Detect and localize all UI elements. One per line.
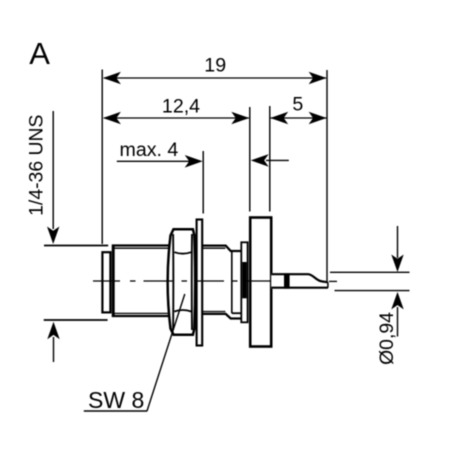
thread dim down arrowhead bbox=[47, 227, 59, 245]
hex nut right face line bbox=[191, 234, 193, 330]
counter arrow tail bbox=[266, 159, 289, 161]
svg-text:5: 5 bbox=[292, 93, 303, 115]
dimension 5 left arrow bbox=[270, 112, 288, 125]
svg-text:12,4: 12,4 bbox=[162, 96, 200, 118]
back body neck bottom line bbox=[232, 312, 242, 314]
centerline dash 4 bbox=[246, 280, 271, 282]
back body bottom edge with chamfer bbox=[202, 314, 241, 319]
back body top edge with chamfer bbox=[202, 246, 241, 251]
pin dim down arrow tail bbox=[397, 226, 399, 258]
svg-text:A: A bbox=[29, 36, 50, 71]
hex nut SW8 silhouette bbox=[168, 229, 196, 335]
svg-text:max. 4: max. 4 bbox=[120, 139, 179, 161]
threaded barrel body bbox=[113, 246, 197, 317]
solder tab black band bbox=[284, 273, 290, 288]
dimension max. 4 leader line bbox=[117, 160, 200, 162]
solder tab top edge bbox=[271, 274, 328, 282]
extension line max4 (washer face) bbox=[202, 151, 204, 214]
extension line A (left, front face) bbox=[101, 70, 103, 245]
solder tab bottom edge bbox=[271, 287, 328, 289]
insulator black core bbox=[242, 262, 247, 298]
dimension 5 right arrow bbox=[309, 112, 327, 125]
back body thread line bottom bbox=[202, 311, 225, 313]
front lip bbox=[102, 252, 110, 312]
insulator bushing bbox=[241, 242, 247, 322]
SW 8 leader line bbox=[147, 294, 185, 411]
thread crest line top bbox=[114, 247, 197, 249]
dimension max. 4 arrow bbox=[185, 155, 203, 168]
thread reference line top bbox=[44, 245, 108, 247]
pin diameter extension line top bbox=[330, 271, 410, 273]
barrel front face line bbox=[113, 246, 115, 316]
pin diameter extension line bottom bbox=[335, 290, 410, 292]
counter arrow at flange-left extension bbox=[251, 154, 269, 167]
centerline dash 2 bbox=[144, 280, 174, 282]
solder tab tip edge bbox=[327, 282, 329, 287]
extension line flange-left bbox=[249, 107, 251, 212]
dimension 12,4 line bbox=[104, 117, 249, 119]
SW 8 underline bbox=[84, 410, 147, 412]
washer bbox=[197, 220, 203, 346]
centerline dot 3 bbox=[232, 280, 238, 282]
centerline dot 1 bbox=[130, 280, 136, 282]
pin dim up arrow tail bbox=[397, 307, 399, 337]
centerline dot 2 bbox=[182, 280, 188, 282]
dimension 12,4 right arrow bbox=[231, 112, 249, 125]
back body thread line top bbox=[202, 247, 225, 249]
thread dim down arrow tail bbox=[52, 111, 54, 229]
centerline dash 3 bbox=[195, 280, 224, 282]
hex nut left face line bbox=[172, 234, 174, 330]
svg-text:1/4-36 UNS: 1/4-36 UNS bbox=[26, 114, 48, 215]
dimension 5 line bbox=[271, 117, 327, 119]
dimension 19 line bbox=[104, 77, 326, 79]
svg-text:19: 19 bbox=[204, 55, 226, 77]
svg-text:Ø0,94: Ø0,94 bbox=[376, 312, 398, 365]
centerline stub right of tip bbox=[329, 280, 337, 282]
extension line flange-right bbox=[269, 106, 271, 212]
thread reference line bottom bbox=[44, 319, 108, 321]
pin dim down arrowhead bbox=[391, 255, 403, 273]
thread crest line bottom bbox=[114, 312, 197, 314]
pin dim up arrowhead bbox=[391, 292, 403, 310]
centerline dash 1 bbox=[93, 280, 120, 282]
solder tab fill bbox=[271, 273, 328, 289]
dimension 12,4 left arrow bbox=[103, 112, 121, 125]
svg-text:SW 8: SW 8 bbox=[88, 387, 144, 413]
dimension 19 right arrow bbox=[309, 72, 327, 85]
hex nut bottom chamfer arc bbox=[174, 310, 191, 312]
thread dim up arrow tail bbox=[53, 337, 55, 362]
hex nut top chamfer arc bbox=[174, 252, 191, 254]
thread dim up arrowhead bbox=[47, 322, 59, 340]
back body neck vertical edge bbox=[231, 251, 233, 313]
dimension 19 left arrow bbox=[103, 72, 121, 85]
extension line B (right, pin tip) bbox=[326, 70, 328, 281]
mounting flange bbox=[250, 218, 271, 347]
